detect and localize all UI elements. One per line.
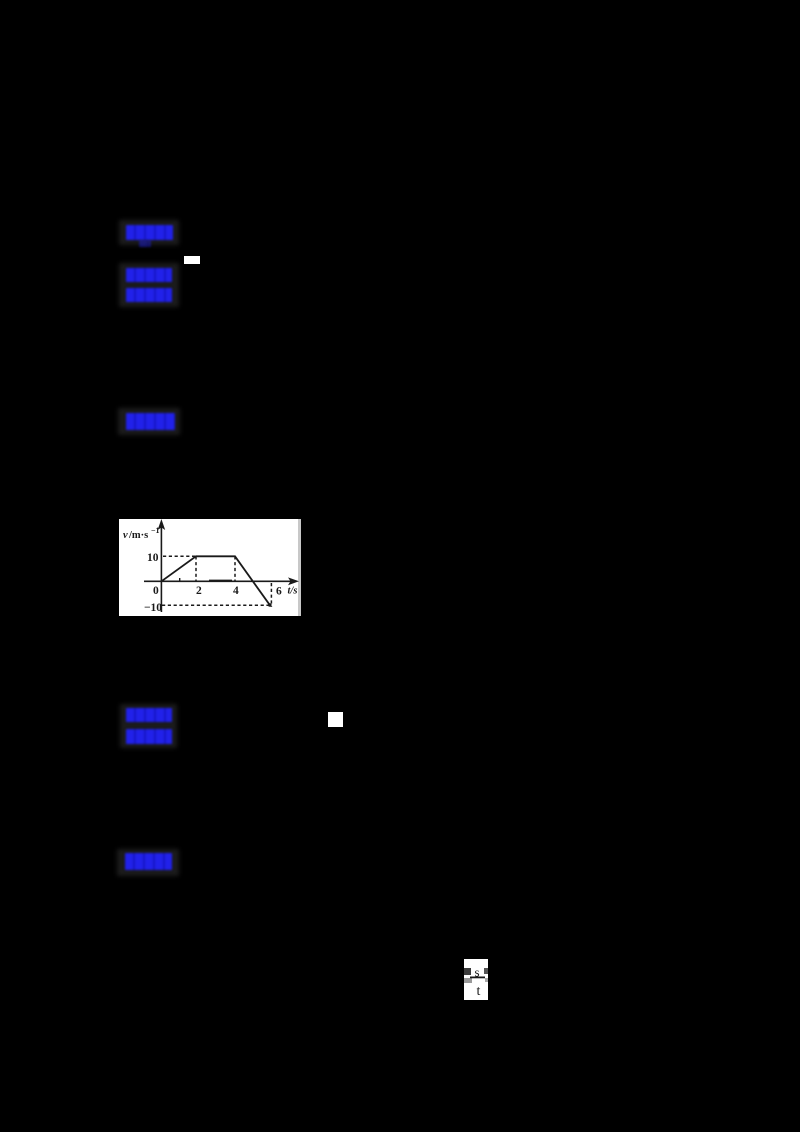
tick t=1 (179, 578, 181, 581)
equals-sign fragment left dark (464, 968, 471, 975)
svg-text:t/s: t/s (288, 586, 298, 597)
x-axis arrowhead (288, 577, 299, 585)
white formula box 2 (328, 712, 343, 727)
halo behind label 7 (117, 849, 179, 876)
svg-text:2: 2 (196, 585, 202, 597)
right edge gray strip (298, 519, 301, 616)
dashed vertical t=2 (195, 556, 197, 581)
dashed line v=10 (163, 555, 196, 557)
blue label 【答案】 q1 (126, 225, 173, 240)
white formula box 1 (184, 256, 200, 264)
right edge light fragment (485, 978, 488, 982)
halo behind labels 2-3 (119, 263, 179, 307)
svg-text:−1: −1 (151, 526, 160, 535)
blue label 【点睛】 q1 (126, 413, 175, 430)
svg-text:/m·s: /m·s (128, 530, 148, 541)
svg-text:0: 0 (153, 585, 159, 597)
velocity curve (161, 556, 270, 605)
svg-text:v: v (123, 530, 128, 541)
dashed vertical t=4 (234, 556, 236, 581)
s/t fraction formula image (464, 959, 488, 1000)
svg-text:−10: −10 (144, 602, 162, 614)
dashed vertical t=6 (270, 583, 272, 607)
figure white background (119, 519, 301, 616)
y-axis (160, 523, 162, 612)
blue label 【解析】 q2 (126, 729, 172, 744)
dashed line v=-10 (162, 604, 270, 606)
svg-text:t: t (477, 984, 481, 999)
svg-text:10: 10 (147, 552, 159, 564)
fraction bar (470, 977, 485, 979)
right edge dark fragment (484, 968, 488, 974)
svg-text:6: 6 (276, 586, 282, 598)
blue label 【详解】 q1 (126, 288, 172, 302)
tick t=3 (thick axis segment) (209, 579, 232, 581)
y-axis arrowhead (158, 519, 166, 530)
halo behind label 4 (118, 408, 180, 435)
x-axis (144, 580, 295, 582)
blue label 【答案】 q2 (126, 708, 172, 722)
blue label 【解析】 q1 (126, 268, 172, 282)
faint blue subscript mark under label 1 (139, 240, 151, 247)
equals-sign fragment left light (464, 978, 472, 983)
v-t graph figure (119, 519, 301, 616)
svg-text:4: 4 (233, 585, 239, 597)
end dot (268, 603, 272, 607)
halo behind labels 5-6 (120, 704, 177, 748)
halo behind label 1 (119, 220, 179, 245)
blue label 【点睛】 q2 (125, 853, 172, 870)
